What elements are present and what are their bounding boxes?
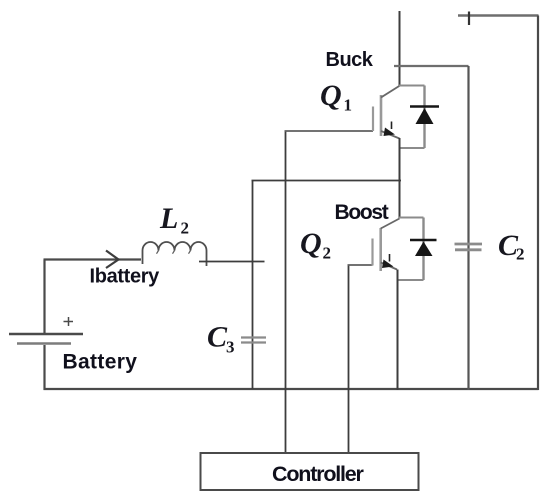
label L2 [159,202,189,238]
controller box [201,453,419,490]
wire: C2 branch vertical [467,66,469,390]
label C2 [498,229,525,264]
battery B1 long positive plate [9,333,83,335]
diode D2 cathode bar [410,239,437,242]
inductor L2 coils [143,242,207,266]
svg-text:1: 1 [344,96,353,115]
battery B1 short negative plate [17,342,71,344]
svg-text:2: 2 [323,244,332,263]
output plus polarity tick [468,12,470,26]
wire: C3 branch vertical [252,180,254,389]
battery B1 plus sign [64,317,74,326]
wire: Q2 emitter to diode D2 bottom [397,279,424,281]
wire: Q2 emitter rail down to bottom bus [397,270,399,391]
wire: battery top horizontal to inductor [44,258,142,260]
IGBT Q2 collector diagonal [381,219,400,229]
wire: inductor to mid-node horizontal [199,261,265,263]
wire: battery positive lead up-left vertical [43,260,45,335]
arrow: Ibattery current direction chevron [106,251,119,269]
wire: Q1 gate line vertical down to controller [285,131,287,453]
IGBT Q2 emitter arrow [389,254,391,262]
wire: half-bridge midpoint rail (Q1 emitter to Q2 collector) [399,138,401,219]
capacitor C2 plates [455,244,483,250]
svg-text:3: 3 [226,338,235,357]
wire: Q2 collector to diode D2 top [399,217,424,219]
label C3 [207,321,235,357]
svg-text:C: C [207,321,228,354]
op IGBT Q1 gate bar [372,107,374,132]
svg-text:Battery: Battery [63,351,138,374]
diode D2 triangle [415,242,433,257]
wire: main rail top (input of Q1 collector) [399,11,401,86]
wire: diode D1 branch vertical [423,86,425,149]
svg-text:Buck: Buck [326,49,374,71]
svg-text:2: 2 [181,219,190,238]
IGBT Q1 body bar [380,95,383,136]
svg-text:Q: Q [320,79,342,112]
svg-text:L: L [159,202,178,235]
label Q1 [320,79,352,115]
IGBT Q2 gate bar [371,239,373,266]
wire: horizontal link rail to C2 branch top [394,65,469,67]
IGBT Q1 emitter arrow [391,122,393,130]
IGBT Q1 emitter diagonal [381,131,400,139]
svg-text:2: 2 [516,245,525,264]
capacitor C3 plates [241,338,266,343]
wire: Q1 emitter to diode D1 bottom [399,147,425,149]
wire: Q2 gate line vertical down to controller [348,265,350,453]
wire: Q1 gate lead horizontal [285,130,374,132]
wire: diode D2 branch vertical [422,218,424,281]
wire: right rail vertical [537,16,539,391]
wire: battery negative lead down vertical [43,345,45,390]
wire: mid horizontal node C3 to half-bridge midpoint [252,180,402,182]
IGBT Q1 collector diagonal [381,86,400,98]
wire: top-right output horizontal [458,14,539,16]
inductor L2 cusp curls [157,251,191,254]
diode D1 triangle [416,108,434,124]
wire: bottom return bus [44,388,539,390]
wire: Q1 collector to diode D1 top [399,85,425,87]
label Q2 [300,227,331,263]
diode D1 cathode bar [410,105,439,108]
svg-text:Controller: Controller [272,462,365,486]
svg-text:Boost: Boost [335,201,389,224]
wire: Q2 gate lead horizontal [348,264,373,266]
IGBT Q2 emitter diagonal [381,263,397,270]
IGBT Q2 body bar [379,228,382,271]
svg-text:Q: Q [300,227,322,260]
svg-text:Ibattery: Ibattery [90,266,161,288]
